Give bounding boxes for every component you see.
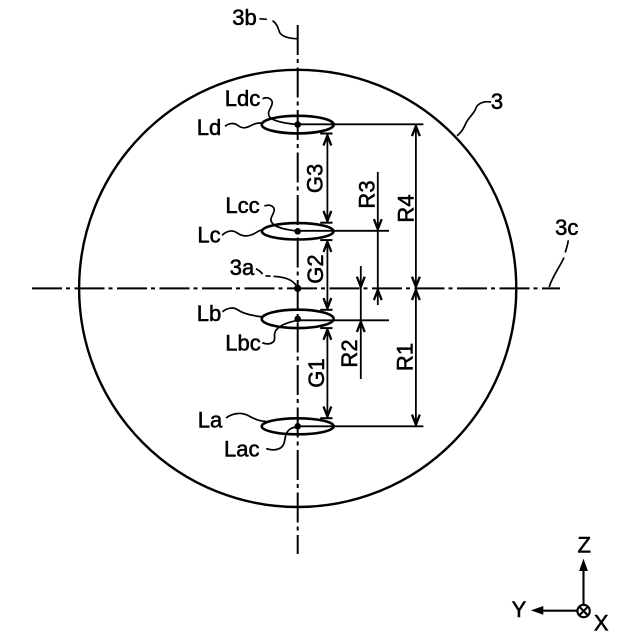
svg-text:Lac: Lac [224, 437, 259, 462]
svg-text:La: La [198, 408, 223, 433]
svg-text:3b: 3b [232, 5, 256, 30]
svg-text:Lc: Lc [197, 222, 220, 247]
svg-text:3a: 3a [230, 255, 255, 280]
svg-text:Lb: Lb [197, 301, 221, 326]
svg-text:R3: R3 [355, 180, 380, 208]
svg-text:Ldc: Ldc [225, 86, 260, 111]
svg-text:Lbc: Lbc [225, 330, 260, 355]
svg-text:Y: Y [512, 597, 527, 622]
svg-text:R2: R2 [337, 339, 362, 367]
svg-text:G1: G1 [304, 358, 329, 387]
svg-text:Ld: Ld [197, 115, 221, 140]
svg-text:Z: Z [577, 533, 590, 558]
svg-text:R4: R4 [394, 194, 419, 222]
svg-text:3: 3 [491, 89, 503, 114]
svg-text:3c: 3c [555, 215, 578, 240]
svg-text:X: X [594, 610, 609, 635]
svg-text:G2: G2 [303, 254, 328, 283]
svg-text:Lcc: Lcc [225, 193, 259, 218]
svg-text:G3: G3 [303, 164, 328, 193]
svg-text:R1: R1 [393, 343, 418, 371]
